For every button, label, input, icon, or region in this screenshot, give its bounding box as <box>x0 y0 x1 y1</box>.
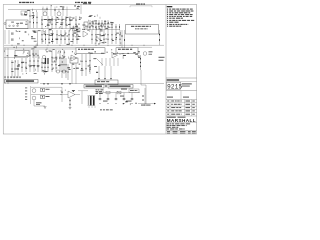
svg-text:MARSHALL: MARSHALL <box>167 118 196 123</box>
svg-text:9215: 9215 <box>167 84 182 91</box>
